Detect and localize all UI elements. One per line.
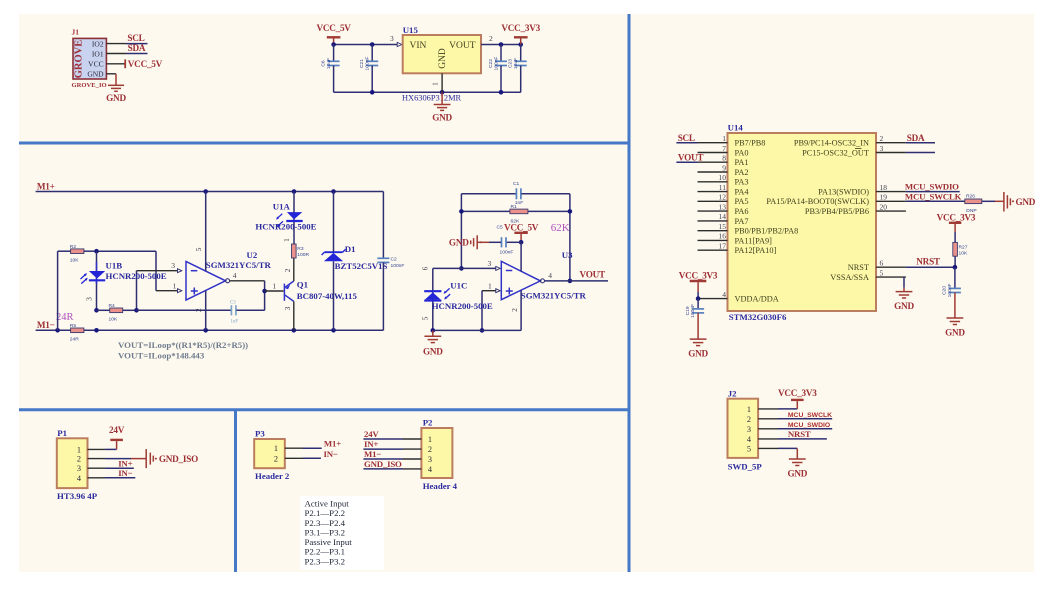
connector P3 box xyxy=(254,429,290,481)
resistor R27 10K xyxy=(953,242,968,267)
svg-text:VCC_5V: VCC_5V xyxy=(316,23,351,33)
section divider vertical 2 xyxy=(234,410,237,572)
svg-text:GND: GND xyxy=(432,113,452,123)
ground GND (C19) xyxy=(688,313,708,359)
connector P1 box xyxy=(57,428,98,501)
capacitor C23 10uF xyxy=(508,45,527,93)
svg-text:1: 1 xyxy=(282,238,291,242)
svg-text:PA12[PA10]: PA12[PA10] xyxy=(735,246,777,255)
photodiode U1B xyxy=(81,251,167,312)
ground GND (regulator) xyxy=(432,92,452,122)
svg-text:100nF: 100nF xyxy=(365,57,371,71)
svg-text:1: 1 xyxy=(431,82,440,86)
wire P3 pin2 IN- xyxy=(285,449,338,459)
svg-text:24V: 24V xyxy=(364,429,379,439)
svg-text:7: 7 xyxy=(722,144,726,153)
svg-text:SGM321YC5/TR: SGM321YC5/TR xyxy=(521,291,587,301)
ground GND (sideways at R26) xyxy=(995,192,1036,212)
svg-text:1: 1 xyxy=(747,405,751,414)
ground GND (C20) xyxy=(945,293,965,338)
MCU left pins 1,7,8..17 xyxy=(698,134,799,255)
LED U1A xyxy=(255,192,316,245)
wire SDA net xyxy=(906,133,935,143)
svg-text:PA6: PA6 xyxy=(735,207,749,216)
capacitor C3 1nF xyxy=(137,300,265,324)
svg-text:3: 3 xyxy=(488,259,492,268)
wire VOUT net xyxy=(676,152,703,162)
svg-text:GND: GND xyxy=(945,328,965,338)
svg-text:20: 20 xyxy=(880,202,888,211)
svg-text:15: 15 xyxy=(719,222,727,231)
resistor R4 10K xyxy=(97,303,139,323)
svg-text:GND: GND xyxy=(423,347,443,357)
svg-text:4: 4 xyxy=(548,271,552,280)
svg-text:3: 3 xyxy=(390,34,394,43)
power port VCC_5V (pin VCC) xyxy=(106,59,162,69)
svg-text:4: 4 xyxy=(722,290,726,299)
svg-text:Active Input: Active Input xyxy=(305,498,350,508)
wire VOUT to VCC_3V3 xyxy=(481,34,523,47)
svg-text:GND: GND xyxy=(449,238,469,248)
wire U3 pin2 to gnd rail xyxy=(433,290,521,330)
svg-text:1: 1 xyxy=(173,281,177,290)
svg-text:R3: R3 xyxy=(297,246,304,252)
svg-text:IN+: IN+ xyxy=(364,439,378,449)
wire P1 pin3 IN+ xyxy=(88,458,134,468)
svg-text:10K: 10K xyxy=(70,258,79,264)
svg-text:GND: GND xyxy=(894,301,914,311)
svg-text:M1+: M1+ xyxy=(37,181,55,191)
svg-text:13: 13 xyxy=(719,202,727,211)
wire P2 pin4 GND_ISO xyxy=(363,459,421,469)
svg-text:C3: C3 xyxy=(230,300,236,305)
svg-text:R2: R2 xyxy=(70,244,77,250)
svg-text:M1+: M1+ xyxy=(324,439,341,449)
resistor R3 100R xyxy=(282,238,310,258)
svg-text:3: 3 xyxy=(77,464,81,473)
zener diode D1 BZT52C5V1S xyxy=(322,192,388,331)
svg-text:5: 5 xyxy=(747,444,751,453)
svg-text:1: 1 xyxy=(77,445,81,454)
svg-text:U15: U15 xyxy=(403,25,419,35)
svg-text:IO1: IO1 xyxy=(92,49,104,58)
svg-text:6: 6 xyxy=(880,259,884,268)
wire J2 pin1 to VCC_3V3 xyxy=(758,388,817,409)
svg-text:62K: 62K xyxy=(551,222,570,234)
wire U2 output pin4 to Q1 base xyxy=(226,271,284,311)
MCU U14 box xyxy=(728,123,877,322)
op-amp U3 SGM321YC5/TR xyxy=(501,250,586,301)
svg-text:GROVE_IO: GROVE_IO xyxy=(72,82,107,89)
svg-text:R5: R5 xyxy=(70,323,77,329)
svg-text:VDDA/DDA: VDDA/DDA xyxy=(735,295,779,304)
svg-text:2: 2 xyxy=(880,134,884,143)
note text block xyxy=(300,496,384,570)
wire P3 pin1 M1+ xyxy=(285,439,341,449)
wire VSSA pin5 to ground xyxy=(894,277,914,311)
wire SCL net xyxy=(676,133,697,143)
svg-text:PB3/PB4/PB5/PB6: PB3/PB4/PB5/PB6 xyxy=(805,207,869,216)
svg-text:2: 2 xyxy=(489,34,493,43)
svg-text:2: 2 xyxy=(510,308,519,312)
svg-text:11: 11 xyxy=(719,183,726,192)
svg-text:VCC_3V3: VCC_3V3 xyxy=(778,388,817,398)
svg-text:MCU_SWDIO: MCU_SWDIO xyxy=(788,422,830,429)
svg-text:C6: C6 xyxy=(321,60,327,67)
svg-text:8: 8 xyxy=(722,154,726,163)
svg-text:NRST: NRST xyxy=(788,429,811,439)
capacitor C5 100nF xyxy=(489,224,521,255)
svg-text:P2: P2 xyxy=(423,418,433,428)
svg-text:Header 4: Header 4 xyxy=(423,481,458,491)
svg-text:C2: C2 xyxy=(391,256,398,262)
svg-text:2: 2 xyxy=(274,454,278,463)
svg-text:J2: J2 xyxy=(728,388,737,398)
section divider vertical 1 xyxy=(628,14,631,572)
svg-text:VCC_3V3: VCC_3V3 xyxy=(937,212,976,222)
svg-text:10uF: 10uF xyxy=(326,58,332,69)
svg-text:2: 2 xyxy=(194,308,203,312)
connector P2 box xyxy=(421,418,457,491)
svg-text:P1: P1 xyxy=(57,428,67,438)
svg-text:GND: GND xyxy=(787,469,807,479)
svg-text:C22: C22 xyxy=(488,59,494,68)
svg-text:1: 1 xyxy=(274,444,278,453)
MCU pin4 VDDA/DDA xyxy=(698,290,779,304)
svg-text:MCU_SWCLK: MCU_SWCLK xyxy=(788,412,832,419)
svg-text:VCC_5V: VCC_5V xyxy=(128,59,163,69)
svg-text:14: 14 xyxy=(719,212,727,221)
svg-text:U1B: U1B xyxy=(106,260,123,270)
svg-text:VOUT=ILoop*148.443: VOUT=ILoop*148.443 xyxy=(118,351,205,361)
svg-text:GROVE: GROVE xyxy=(74,40,85,79)
connector J2 box xyxy=(728,388,763,471)
wire R2 node to opamp +input xyxy=(94,249,182,293)
svg-text:R1: R1 xyxy=(511,204,518,210)
photodiode U1C xyxy=(420,266,493,332)
wire pin3 stub xyxy=(906,152,935,154)
svg-text:SDA: SDA xyxy=(907,133,925,143)
svg-text:24V: 24V xyxy=(109,425,125,435)
power port VCC_3V3 (VDDA) xyxy=(679,271,718,301)
svg-text:1: 1 xyxy=(488,281,492,290)
svg-text:3: 3 xyxy=(85,297,94,301)
svg-text:C23: C23 xyxy=(508,59,514,68)
svg-text:SCL: SCL xyxy=(127,33,144,43)
svg-text:IN−: IN− xyxy=(118,468,132,478)
svg-text:PA5: PA5 xyxy=(735,197,749,206)
svg-text:PA11[PA9]: PA11[PA9] xyxy=(735,236,773,245)
svg-text:C19: C19 xyxy=(685,306,691,315)
svg-text:SDA: SDA xyxy=(128,43,146,53)
wire U1C pin6 to U3 -input xyxy=(433,259,500,270)
wire MCU_SWDIO net xyxy=(905,182,960,192)
svg-text:PA4: PA4 xyxy=(735,188,750,197)
svg-text:R27: R27 xyxy=(959,245,968,251)
svg-text:VOUT=ILoop*((R1*R5)/(R2+R5)): VOUT=ILoop*((R1*R5)/(R2+R5)) xyxy=(118,340,248,350)
svg-text:100nF: 100nF xyxy=(500,250,514,256)
svg-text:10uF: 10uF xyxy=(513,58,519,69)
wire bottom rail of regulator xyxy=(334,90,521,95)
svg-text:HCNR200-500E: HCNR200-500E xyxy=(255,221,316,231)
svg-text:M1−: M1− xyxy=(37,320,55,330)
svg-text:1: 1 xyxy=(722,134,726,143)
svg-text:HX6306P312MR: HX6306P312MR xyxy=(402,93,462,102)
svg-text:MCU_SWCLK: MCU_SWCLK xyxy=(905,192,962,202)
svg-text:VCC_3V3: VCC_3V3 xyxy=(501,23,540,33)
wire U2 pin5 to M1+ xyxy=(194,192,206,272)
wire P2 pin3 M1- xyxy=(363,449,421,459)
wire feedback left riser xyxy=(459,194,464,271)
svg-text:C5: C5 xyxy=(497,224,504,230)
svg-text:NRST: NRST xyxy=(848,263,869,272)
svg-text:100nF: 100nF xyxy=(493,57,499,71)
svg-text:Passive Input: Passive Input xyxy=(305,537,353,547)
svg-text:U1A: U1A xyxy=(273,202,291,212)
svg-text:100nF: 100nF xyxy=(690,304,696,318)
svg-text:2: 2 xyxy=(747,415,751,424)
svg-text:C21: C21 xyxy=(359,59,365,68)
svg-text:VOUT: VOUT xyxy=(580,270,605,280)
capacitor C19 100nF xyxy=(685,299,704,318)
svg-text:GND_ISO: GND_ISO xyxy=(159,454,198,464)
svg-text:D1: D1 xyxy=(345,244,356,254)
resistor R5 24R xyxy=(70,323,84,342)
wire U3 +input xyxy=(480,281,500,332)
wire SDA (pin IO1) xyxy=(106,43,147,54)
wire MCU_SWCLK net to R26 xyxy=(905,192,965,202)
svg-text:P2.2—P3.1: P2.2—P3.1 xyxy=(305,547,346,557)
section divider horizontal 2 xyxy=(19,408,631,411)
svg-text:PA1: PA1 xyxy=(735,158,749,167)
wire P1 pin4 IN- xyxy=(88,468,136,478)
wire left riser R2 to M1- xyxy=(57,251,59,330)
svg-text:3: 3 xyxy=(283,306,292,310)
regulator U15 box xyxy=(402,25,481,103)
svg-text:SGM321YC5/TR: SGM321YC5/TR xyxy=(206,260,272,270)
wire P2 pin2 IN+ xyxy=(363,439,421,449)
wire feedback right riser xyxy=(568,194,573,283)
svg-text:U3: U3 xyxy=(562,250,573,260)
power port VCC_3V3 (R27 pullup) xyxy=(937,212,976,242)
svg-text:5: 5 xyxy=(194,247,203,251)
svg-text:GND: GND xyxy=(1016,197,1036,207)
svg-text:GND: GND xyxy=(438,48,448,69)
node M1- rail xyxy=(36,320,384,332)
svg-text:BC807-40W,115: BC807-40W,115 xyxy=(297,291,358,301)
wire VCC_5V to VIN xyxy=(331,34,401,47)
svg-text:VCC: VCC xyxy=(88,60,103,69)
node M1+ rail xyxy=(36,181,384,194)
wire U3 output VOUT xyxy=(541,270,609,283)
svg-text:10K: 10K xyxy=(959,251,968,257)
svg-text:24R: 24R xyxy=(70,337,79,343)
ground GND (pin GND of J1) xyxy=(106,74,126,103)
svg-text:6: 6 xyxy=(420,266,429,270)
svg-text:C20: C20 xyxy=(942,286,948,295)
svg-text:2: 2 xyxy=(283,268,292,272)
op-amp U2 SGM321YC5/TR xyxy=(186,250,271,300)
resistor R1 62K feedback xyxy=(461,204,570,224)
svg-text:C1: C1 xyxy=(513,181,520,187)
svg-text:VOUT: VOUT xyxy=(678,152,703,162)
transistor Q1 BC807 xyxy=(283,258,358,330)
svg-text:GND: GND xyxy=(688,349,708,359)
svg-text:16: 16 xyxy=(719,232,727,241)
resistor R26 DNP xyxy=(965,194,995,214)
svg-text:IN+: IN+ xyxy=(118,458,132,468)
wire SCL (pin IO2) xyxy=(106,33,147,44)
svg-text:P3: P3 xyxy=(255,429,265,439)
svg-text:PA2: PA2 xyxy=(735,168,749,177)
svg-text:VCC_3V3: VCC_3V3 xyxy=(679,271,718,281)
formula annotation xyxy=(118,340,248,360)
svg-text:STM32G030F6: STM32G030F6 xyxy=(729,312,787,322)
wire U15 GND pin 1 xyxy=(431,73,442,92)
svg-text:U2: U2 xyxy=(247,250,258,260)
svg-text:PA3: PA3 xyxy=(735,178,749,187)
svg-text:100nF: 100nF xyxy=(947,283,953,297)
wire P1 pin1 to 24V xyxy=(88,425,125,449)
svg-text:VSSA/SSA: VSSA/SSA xyxy=(830,273,869,282)
svg-text:GND_ISO: GND_ISO xyxy=(364,459,402,469)
svg-text:R4: R4 xyxy=(109,303,116,309)
wire NRST net xyxy=(906,257,957,270)
svg-text:10: 10 xyxy=(719,173,727,182)
svg-text:R26: R26 xyxy=(966,194,975,200)
svg-text:9: 9 xyxy=(722,163,726,172)
capacitor C20 100nF xyxy=(942,267,961,297)
MCU right pins 2,3,18,19,20,6,5 xyxy=(766,134,906,282)
section divider horizontal 1 xyxy=(19,142,631,145)
svg-text:SCL: SCL xyxy=(678,133,695,143)
svg-text:HT3.96 4P: HT3.96 4P xyxy=(57,491,98,501)
svg-text:PA0: PA0 xyxy=(735,148,749,157)
wire J2 pin5 to GND xyxy=(758,448,808,478)
svg-text:2: 2 xyxy=(77,455,81,464)
svg-text:3: 3 xyxy=(171,261,175,270)
svg-text:2: 2 xyxy=(428,445,432,454)
ground GND (sideways, at C5) xyxy=(449,235,489,249)
svg-text:GND: GND xyxy=(87,70,104,79)
svg-text:P3.1—P3.2: P3.1—P3.2 xyxy=(305,527,346,537)
capacitor C21 100nF xyxy=(359,45,378,93)
power port VCC_3V3 xyxy=(501,23,540,45)
svg-text:J1: J1 xyxy=(72,28,80,37)
svg-text:19: 19 xyxy=(880,193,888,202)
svg-text:24R: 24R xyxy=(56,312,74,323)
svg-text:U1C: U1C xyxy=(450,280,467,290)
wire J2 pin3 MCU_SWDIO xyxy=(758,422,832,429)
svg-text:PB9/PC14-OSC32_IN: PB9/PC14-OSC32_IN xyxy=(794,139,869,148)
svg-text:1nF: 1nF xyxy=(231,320,239,325)
svg-text:PA7: PA7 xyxy=(735,217,749,226)
ground GND (U1C) xyxy=(423,330,443,356)
svg-text:PB0/PB1/PB2/PA8: PB0/PB1/PB2/PA8 xyxy=(735,227,799,236)
svg-text:3: 3 xyxy=(428,455,432,464)
svg-text:HCNR200-500E: HCNR200-500E xyxy=(432,301,493,311)
wire opamp -input to R4 node xyxy=(137,261,182,310)
svg-text:Header 2: Header 2 xyxy=(255,471,290,481)
capacitor C6 10uF xyxy=(321,45,340,93)
svg-text:10K: 10K xyxy=(109,316,118,322)
svg-text:VOUT: VOUT xyxy=(449,41,476,51)
svg-text:M1−: M1− xyxy=(364,449,381,459)
svg-text:100R: 100R xyxy=(297,252,309,258)
svg-text:18: 18 xyxy=(880,183,888,192)
capacitor C1 1nF feedback xyxy=(461,181,570,206)
svg-text:NRST: NRST xyxy=(916,257,940,267)
svg-text:PA15/PA14-BOOT0(SWCLK): PA15/PA14-BOOT0(SWCLK) xyxy=(766,197,869,206)
wire J2 pin2 MCU_SWCLK xyxy=(758,412,832,419)
wire U3 pin5 power xyxy=(520,242,522,271)
capacitor C2 100nF xyxy=(377,192,404,331)
svg-text:VCC_5V: VCC_5V xyxy=(504,223,539,233)
svg-text:IN−: IN− xyxy=(324,449,338,459)
svg-text:GND: GND xyxy=(106,93,126,103)
svg-text:SWD_5P: SWD_5P xyxy=(728,461,763,471)
svg-text:MCU_SWDIO: MCU_SWDIO xyxy=(905,182,959,192)
svg-text:4: 4 xyxy=(233,271,237,280)
capacitor C22 100nF xyxy=(488,45,507,93)
connector J1 box xyxy=(72,28,107,90)
wire P1 pin2 to GND_ISO xyxy=(88,449,199,468)
svg-text:5: 5 xyxy=(880,268,884,277)
svg-text:12: 12 xyxy=(719,193,727,202)
svg-text:PB7/PB8: PB7/PB8 xyxy=(735,139,766,148)
wire P2 pin1 24V xyxy=(363,429,421,439)
svg-text:1: 1 xyxy=(428,435,432,444)
svg-text:100nF: 100nF xyxy=(391,263,405,269)
svg-text:U14: U14 xyxy=(728,123,744,133)
svg-text:PC15-OSC32_OUT: PC15-OSC32_OUT xyxy=(802,148,869,157)
svg-text:VIN: VIN xyxy=(410,41,427,51)
svg-text:3: 3 xyxy=(747,425,751,434)
svg-text:3: 3 xyxy=(880,144,884,153)
power port VCC_5V (U3) xyxy=(504,223,539,245)
resistor R2 10K xyxy=(58,244,97,263)
svg-text:IO2: IO2 xyxy=(92,39,104,48)
svg-text:HCNR200-500E: HCNR200-500E xyxy=(106,271,167,281)
wire J2 pin4 NRST xyxy=(758,429,827,439)
svg-text:PA13(SWDIO): PA13(SWDIO) xyxy=(818,188,869,197)
svg-text:P2.1—P2.2: P2.1—P2.2 xyxy=(305,508,346,518)
svg-text:1: 1 xyxy=(272,282,276,291)
svg-text:P2.3—P3.2: P2.3—P3.2 xyxy=(305,557,346,567)
svg-text:17: 17 xyxy=(719,242,727,251)
svg-text:5: 5 xyxy=(420,316,429,320)
wire U2 pin2 to M1- xyxy=(194,290,206,330)
power port VCC_5V xyxy=(316,23,351,45)
svg-text:Q1: Q1 xyxy=(297,280,308,290)
